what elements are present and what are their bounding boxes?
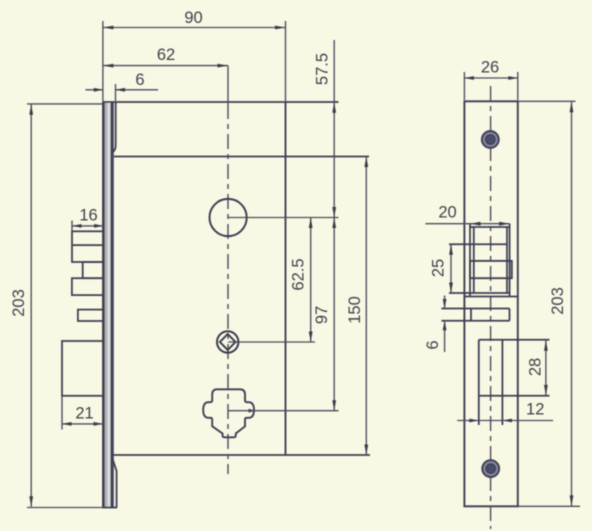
spindle hole circle [217, 331, 238, 352]
svg-text:6: 6 [135, 71, 144, 89]
dim 16 line [72, 225, 104, 227]
dim 6 (right view) lines + outside arrows [444, 296, 446, 309]
dim 25 line [450, 244, 452, 293]
cutout bottom line [464, 296, 517, 298]
dim 26 ext lines [463, 72, 465, 100]
ext line right of 90 dim [285, 21, 287, 101]
profile cam hole (crown shape) [203, 389, 254, 437]
dim 12 leader line + outside arrows [457, 420, 553, 422]
dim 97 arrows [332, 218, 336, 229]
svg-text:25: 25 [430, 259, 448, 277]
case step line (extends right as ext line for 150) [114, 156, 369, 158]
latch bolt inner right edge [506, 227, 508, 293]
case bottom edge (extends right as ext line for 150) [111, 454, 370, 456]
latch cutout left edge [469, 224, 471, 297]
faceplate outline [464, 101, 517, 506]
svg-text:21: 21 [75, 405, 93, 423]
dim 203 (left) ext lines [27, 103, 102, 105]
dim 57.5 arrows [332, 102, 336, 113]
faceplate left edge line [102, 102, 105, 508]
svg-text:150: 150 [346, 296, 364, 324]
svg-text:16: 16 [79, 207, 97, 225]
latch cutout top edge [470, 226, 510, 228]
vertical centerline (right view) [490, 86, 492, 529]
spindle hole square (rotated) [220, 334, 236, 350]
bottom mounting lug [112, 456, 117, 508]
dim 150 line [365, 157, 367, 456]
dim 90 line [103, 27, 286, 29]
cylinder hole [210, 199, 247, 236]
svg-text:203: 203 [10, 289, 28, 317]
dim 57.5 / 97 shared line [333, 40, 335, 411]
top screw hole [482, 131, 499, 148]
svg-text:203: 203 [549, 287, 567, 315]
faceplate edge band fill [104, 102, 107, 508]
top mounting lug [112, 102, 115, 152]
bottom screw hole [482, 460, 499, 477]
ext line from cam hole center [228, 410, 339, 412]
ext line for 6 dim right [115, 84, 117, 101]
latch neck [83, 262, 104, 278]
latch bolt bevel divider [72, 244, 104, 246]
auxiliary snib bolt [78, 310, 104, 321]
dim 62 line [103, 65, 228, 67]
dim 203 (right) line [571, 102, 573, 506]
svg-text:97: 97 [313, 306, 331, 324]
case top edge (extends right as ext line for 57.5) [102, 101, 338, 103]
vertical centerline (left view) [227, 104, 229, 474]
dim 62.5 line [310, 218, 312, 343]
svg-text:26: 26 [481, 59, 499, 77]
dim 28 line [545, 340, 547, 395]
svg-text:62.5: 62.5 [290, 258, 308, 290]
case right edge [285, 102, 287, 455]
deadbolt cutout bottom edge (ext right for dim 28) [479, 395, 550, 397]
latch bevel divider (ext left for dim 25) [449, 243, 507, 245]
latch bolt inner left edge [473, 227, 475, 293]
deadbolt cutout right edge (ext down for dim 12) [501, 340, 503, 425]
dim 26 line [464, 77, 517, 79]
deadbolt cutout left edge (ext down for dim 12) [478, 340, 480, 425]
latch cutout right edge [509, 224, 511, 297]
latch tail block [72, 278, 104, 295]
svg-text:20: 20 [438, 204, 456, 222]
dim 203 (left) line [30, 104, 32, 507]
deadbolt [62, 341, 104, 396]
svg-text:6: 6 [424, 340, 442, 349]
dim 203 (right) ext lines [519, 100, 576, 102]
svg-text:62: 62 [157, 46, 175, 64]
dim 20 leader line [425, 223, 509, 225]
deadbolt cutout top edge (ext right for dim 28) [479, 339, 550, 341]
latch bolt (two sections) [72, 231, 104, 262]
svg-text:28: 28 [527, 358, 545, 376]
leader arrow at cam hole right ear [249, 409, 256, 413]
svg-text:57.5: 57.5 [314, 53, 332, 85]
dim 21 ext line [61, 397, 63, 430]
latch guard block [470, 261, 512, 278]
snib box (ext left for dim 6) [441, 308, 509, 310]
dim 6 line + outside arrows [86, 89, 104, 91]
svg-text:12: 12 [526, 401, 544, 419]
svg-text:90: 90 [184, 9, 202, 27]
faceplate bottom edge [102, 507, 117, 509]
ext line from spindle hole center [228, 341, 315, 343]
faceplate right edge line [110, 102, 113, 508]
ext line 62 dim down to case (solid) [227, 66, 229, 104]
ext line from cylinder hole center [228, 217, 339, 219]
dim 16 ext line [71, 221, 73, 231]
latch bottom line (ext left for dim 25) [449, 292, 510, 294]
ext line left of 90/62 dims [102, 21, 104, 101]
dim 21 line [62, 423, 103, 425]
